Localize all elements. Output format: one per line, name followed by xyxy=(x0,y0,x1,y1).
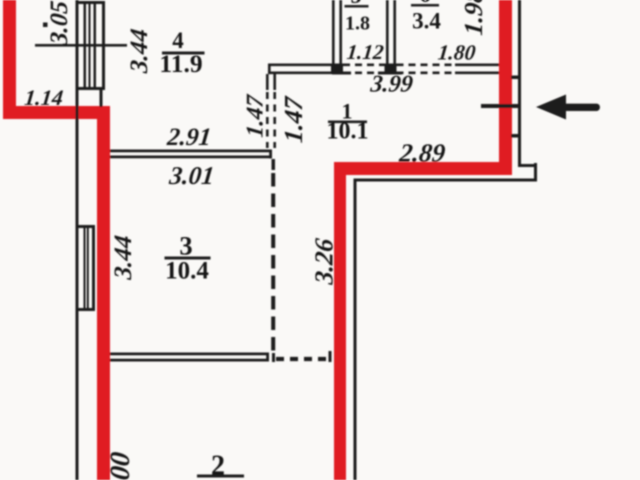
svg-text:3.99: 3.99 xyxy=(368,72,414,98)
corridor top wall dashed door segment room6, upper xyxy=(397,64,456,67)
svg-text:3.26: 3.26 xyxy=(310,236,339,286)
corridor top wall solid segment left, lower line xyxy=(268,72,343,75)
svg-text:2.91: 2.91 xyxy=(165,124,213,151)
room3 bottom wall top line xyxy=(110,353,269,356)
svg-text:1.8: 1.8 xyxy=(345,13,370,35)
wall5/6 block foot xyxy=(378,72,402,75)
dimension point dot xyxy=(43,23,48,28)
stairwell outer line vertical top right xyxy=(518,0,521,166)
wall between room5 and room6 line b xyxy=(393,0,396,64)
room5 left wall foot xyxy=(332,72,351,75)
room4 door opening dashed line left xyxy=(266,92,269,148)
red exterior wall: right lower vertical xyxy=(334,162,346,480)
door jamb wall above room4 door, right line xyxy=(273,74,276,90)
svg-text:00: 00 xyxy=(105,450,136,480)
svg-text:3.4: 3.4 xyxy=(412,9,441,34)
door jamb wall above room4 door, left line xyxy=(266,74,269,90)
entrance arrow xyxy=(536,95,600,120)
svg-text:3.44: 3.44 xyxy=(110,234,137,282)
room5 left wall line a xyxy=(332,0,335,74)
room5 left wall line b xyxy=(339,0,342,74)
entrance tick middle crossing red wall xyxy=(481,104,521,108)
room3 bottom wall right end cap xyxy=(266,353,269,362)
svg-text:2.89: 2.89 xyxy=(397,139,447,168)
corridor top wall left end cap xyxy=(268,64,271,75)
stairwell outer line step horizontal xyxy=(518,164,537,167)
window W2 top cap xyxy=(76,225,95,228)
entrance tick upper xyxy=(511,76,521,80)
svg-text:10.1: 10.1 xyxy=(327,119,369,145)
window W2 right edge xyxy=(92,225,95,311)
stairwell outer line lower vertical xyxy=(354,179,357,480)
svg-text:1.47: 1.47 xyxy=(279,95,308,144)
red exterior wall: right upper vertical xyxy=(499,0,512,175)
corridor top wall solid segment right, upper line xyxy=(455,64,499,67)
svg-text:10.4: 10.4 xyxy=(165,258,209,285)
room 1 fraction bar xyxy=(328,121,367,124)
wall room4/room3 top line xyxy=(110,150,272,153)
wall between room5 and room6 line a xyxy=(386,0,389,64)
room 3 fraction bar xyxy=(165,257,211,260)
room 2 fraction bar xyxy=(197,475,244,478)
corridor bottom dashed opening xyxy=(276,357,331,361)
partition dashed line room3/corridor xyxy=(271,173,275,355)
svg-text:3.01: 3.01 xyxy=(167,161,216,190)
svg-text:1.14: 1.14 xyxy=(23,85,64,110)
svg-text:3.05: 3.05 xyxy=(46,0,73,47)
room3 bottom wall bottom line xyxy=(110,359,269,362)
svg-text:3.44: 3.44 xyxy=(126,28,153,76)
svg-text:1.80: 1.80 xyxy=(437,41,477,65)
room3 bottom wall stub at dashes start xyxy=(272,353,275,362)
room 4 fraction bar xyxy=(162,52,205,55)
svg-text:3: 3 xyxy=(179,231,192,261)
window W1 inner pane line c xyxy=(94,3,97,88)
exterior face line left xyxy=(76,0,79,480)
window W1 inner pane line a xyxy=(84,3,87,88)
room 5 fraction bar xyxy=(345,5,369,8)
corridor top wall dashed door segment room5, upper xyxy=(343,64,385,67)
stairwell outer line long horizontal xyxy=(354,179,537,182)
stairwell outer line step vertical xyxy=(534,163,537,182)
window W1 right edge xyxy=(102,1,105,90)
wall stub below window W1 xyxy=(100,90,103,107)
entrance tick lower xyxy=(511,134,521,138)
window W1 bottom cap xyxy=(76,87,105,90)
red exterior wall: middle horizontal xyxy=(334,162,512,175)
room5 left wall bottom block xyxy=(331,64,343,75)
svg-text:1.47: 1.47 xyxy=(243,93,269,139)
window W2 bottom cap xyxy=(76,308,95,311)
room4 door opening dashed line right xyxy=(273,92,276,148)
red exterior wall: left lower vertical xyxy=(97,106,110,480)
window W1 top cap xyxy=(76,1,105,4)
svg-text:11.9: 11.9 xyxy=(159,49,202,78)
window W2 inner pane line a xyxy=(84,228,86,309)
wall stub below room4/room3 wall cap xyxy=(272,159,276,170)
corridor top wall solid block under wall5/6 xyxy=(385,64,397,75)
svg-text:1.12: 1.12 xyxy=(346,40,386,64)
corridor top wall dashed door segment room6, lower xyxy=(397,72,456,75)
dimension line for 3.05 / 3.44 xyxy=(35,44,127,47)
corridor top wall solid segment left, upper line xyxy=(268,64,343,67)
corridor top wall solid segment right, lower line xyxy=(455,72,499,75)
window W2 inner pane line b xyxy=(87,228,89,309)
wall room4/room3 bottom line xyxy=(110,156,272,159)
window W1 inner pane line b xyxy=(89,3,91,88)
red exterior wall: left step horizontal xyxy=(3,106,110,119)
corridor top wall dashed door segment room5, lower xyxy=(343,72,385,75)
wall room4/room3 right end cap xyxy=(269,150,272,159)
svg-text:1.98: 1.98 xyxy=(459,0,488,37)
stub at red wall near dashed opening xyxy=(329,351,332,362)
room 6 fraction bar xyxy=(411,4,439,7)
red exterior wall: top-left vertical xyxy=(3,0,16,119)
